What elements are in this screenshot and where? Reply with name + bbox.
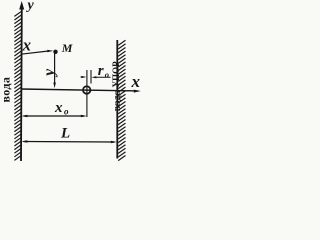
svg-text:r: r <box>98 63 104 79</box>
svg-text:y: y <box>41 69 58 78</box>
svg-text:вода: вода <box>0 77 13 103</box>
svg-text:o: o <box>64 107 69 117</box>
svg-text:L: L <box>60 126 70 142</box>
svg-text:x: x <box>22 36 31 55</box>
svg-text:ВОДО: ВОДО <box>113 89 122 111</box>
svg-text:x: x <box>54 100 63 116</box>
svg-text:y: y <box>26 0 35 13</box>
svg-text:УПОР: УПОР <box>111 61 121 88</box>
svg-text:x: x <box>131 72 141 91</box>
svg-text:o: o <box>105 70 109 80</box>
svg-text:M: M <box>61 41 73 55</box>
